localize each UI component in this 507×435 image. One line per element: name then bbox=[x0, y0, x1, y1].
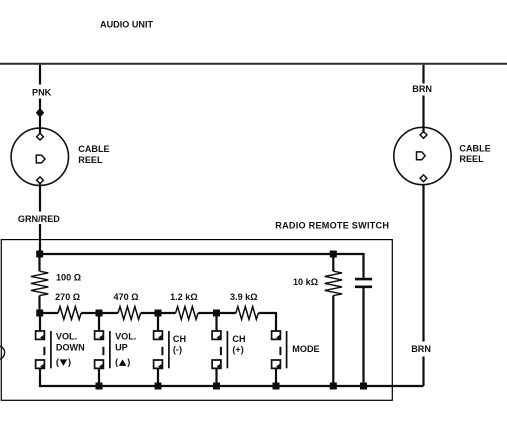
wire PNK drop from audio unit bbox=[39, 65, 41, 85]
wire S2 bottom lead bbox=[98, 369, 100, 386]
switch CH(-) S3 bbox=[154, 313, 186, 386]
node junction 10k and top bus bbox=[330, 251, 337, 258]
actuator bar S2 bbox=[109, 331, 111, 368]
svg-text:REEL: REEL bbox=[78, 155, 103, 165]
wire S4 bottom lead bbox=[215, 369, 217, 386]
resistor 3.9 kohm bbox=[236, 307, 258, 320]
wire BRN riser from bottom bus bbox=[422, 357, 424, 387]
cable reel right top terminal bbox=[420, 132, 427, 139]
wire GRN/RED into box bbox=[39, 224, 41, 254]
actuator bar S4 bbox=[226, 331, 228, 368]
terminal S3 bottom bbox=[154, 360, 163, 369]
svg-text:VOL.: VOL. bbox=[56, 331, 77, 341]
terminal S4 top bbox=[212, 331, 221, 340]
svg-text:CH: CH bbox=[232, 334, 245, 344]
wire BRN riser to cable reel bbox=[422, 184, 424, 342]
resistor 270 ohm bbox=[58, 307, 81, 320]
wire resistor bus segment C bbox=[141, 312, 176, 314]
cable reel left top terminal bbox=[37, 133, 44, 140]
wire S1 top lead bbox=[39, 313, 41, 332]
svg-text:BRN: BRN bbox=[411, 344, 431, 354]
svg-text:3.9 kΩ: 3.9 kΩ bbox=[230, 292, 258, 302]
icon volume down triangle bbox=[60, 359, 68, 366]
wire 10 kohm top bbox=[332, 254, 334, 271]
svg-text:10 kΩ: 10 kΩ bbox=[293, 277, 318, 287]
wire S3 top lead bbox=[157, 313, 159, 332]
switch MODE S5 bbox=[272, 331, 320, 386]
svg-text:270 Ω: 270 Ω bbox=[55, 292, 80, 302]
svg-text:AUDIO UNIT: AUDIO UNIT bbox=[100, 20, 153, 30]
terminal S5 bottom bbox=[272, 360, 281, 369]
resistor 100 ohm bbox=[31, 271, 48, 295]
wire BRN into right cable reel bbox=[422, 96, 424, 134]
svg-text:REEL: REEL bbox=[459, 154, 484, 164]
svg-text:RADIO REMOTE SWITCH: RADIO REMOTE SWITCH bbox=[275, 220, 389, 230]
node bottom bus / 10 kohm bbox=[330, 383, 337, 390]
svg-text:PNK: PNK bbox=[32, 87, 52, 97]
svg-text:VOL.: VOL. bbox=[115, 331, 136, 341]
wire capacitor bottom bbox=[362, 288, 364, 386]
resistor 10 kohm bbox=[325, 271, 342, 295]
switch VOL.UP S2 bbox=[95, 313, 137, 386]
connector stub at box left edge bbox=[0, 346, 5, 360]
cable reel left bottom terminal bbox=[37, 177, 44, 184]
actuator bar S1 bbox=[50, 331, 52, 368]
cable reel left center symbol bbox=[36, 155, 45, 163]
svg-text:1.2 kΩ: 1.2 kΩ bbox=[170, 292, 198, 302]
switch CH(+) S4 bbox=[212, 313, 245, 386]
wire S4 top lead bbox=[215, 313, 217, 332]
svg-text:CH: CH bbox=[173, 334, 186, 344]
wire 10 kohm bottom bbox=[332, 296, 334, 387]
svg-text:MODE: MODE bbox=[292, 344, 319, 354]
svg-text:): ) bbox=[127, 357, 130, 367]
svg-text:BRN: BRN bbox=[412, 84, 432, 94]
svg-text:CABLE: CABLE bbox=[78, 144, 109, 154]
node bottom bus / vol-up bbox=[96, 383, 103, 390]
terminal S5 top bbox=[272, 331, 281, 340]
dashed actuator link S4 bbox=[220, 347, 222, 355]
wire from 100 ohm to resistor bus bbox=[38, 296, 40, 314]
wire S1 bottom lead bbox=[39, 369, 41, 386]
wire resistor bus segment A bbox=[40, 312, 59, 314]
label CABLE REEL right bbox=[459, 144, 490, 164]
node junction GRN/RED and top bus bbox=[36, 251, 43, 258]
node bottom bus / mode bbox=[273, 383, 280, 390]
node junction bus/ch-minus bbox=[155, 310, 162, 317]
wire capacitor top bbox=[362, 253, 364, 278]
svg-text:(+): (+) bbox=[232, 345, 243, 355]
node junction bus/100ohm bbox=[36, 310, 43, 317]
radio remote switch box bbox=[1, 240, 392, 401]
node bottom bus / capacitor bbox=[360, 383, 367, 390]
wire GRN/RED from reel bbox=[39, 183, 41, 212]
terminal S3 top bbox=[154, 331, 163, 340]
terminal S2 top bbox=[95, 331, 104, 340]
terminal S1 top bbox=[36, 331, 45, 340]
svg-text:470 Ω: 470 Ω bbox=[114, 292, 139, 302]
cable reel left circle bbox=[11, 128, 68, 185]
svg-text:CABLE: CABLE bbox=[459, 144, 490, 154]
wire resistor bus segment D bbox=[198, 312, 236, 314]
terminal S2 bottom bbox=[95, 360, 104, 369]
actuator bar S3 bbox=[168, 331, 170, 368]
resistor 1.2 kohm bbox=[176, 307, 198, 320]
resistor 470 ohm bbox=[118, 307, 141, 320]
dashed actuator link S3 bbox=[161, 347, 163, 355]
switch VOL.DOWN S1 bbox=[36, 313, 85, 386]
wire S3 bottom lead bbox=[157, 369, 159, 386]
svg-text:UP: UP bbox=[115, 343, 128, 353]
node junction bus/ch-plus bbox=[213, 310, 220, 317]
wire bottom bus bbox=[40, 385, 424, 386]
wire PNK below label bbox=[39, 99, 41, 110]
node junction bus/vol-up bbox=[96, 310, 103, 317]
wire from top bus into 100 ohm bbox=[38, 254, 40, 271]
capacitor plate bottom bbox=[355, 285, 372, 288]
wire top bus inside box bbox=[39, 253, 365, 255]
wire into left cable reel bbox=[39, 117, 41, 134]
connector (filled) on PNK wire bbox=[36, 108, 44, 118]
cable reel right center symbol bbox=[417, 152, 426, 160]
wire resistor bus segment E to MODE corner bbox=[259, 313, 277, 331]
dashed actuator link S1 bbox=[43, 347, 45, 355]
svg-text:DOWN: DOWN bbox=[56, 343, 85, 353]
dashed actuator link S5 bbox=[279, 347, 281, 355]
terminal S4 bottom bbox=[212, 360, 221, 369]
label CABLE REEL left bbox=[78, 144, 109, 165]
cable reel right bottom terminal bbox=[420, 175, 427, 182]
svg-text:): ) bbox=[68, 357, 71, 367]
cable reel right circle bbox=[394, 127, 451, 184]
actuator bar S5 bbox=[286, 331, 288, 368]
node bottom bus / ch-minus bbox=[155, 383, 162, 390]
svg-text:GRN/RED: GRN/RED bbox=[18, 214, 60, 224]
terminal S1 bottom bbox=[36, 360, 45, 369]
svg-text:(-): (-) bbox=[173, 345, 182, 355]
icon volume up triangle bbox=[119, 359, 127, 366]
capacitor plate top bbox=[355, 278, 372, 281]
node bottom bus / ch-plus bbox=[213, 383, 220, 390]
wire audio unit bottom line bbox=[0, 63, 507, 65]
dashed actuator link S2 bbox=[102, 347, 104, 355]
wire BRN drop from audio unit bbox=[422, 65, 424, 84]
svg-text:100 Ω: 100 Ω bbox=[56, 273, 81, 283]
wire resistor bus segment B bbox=[81, 312, 118, 314]
wire S5 bottom lead bbox=[275, 369, 277, 386]
wire S2 top lead bbox=[98, 313, 100, 332]
